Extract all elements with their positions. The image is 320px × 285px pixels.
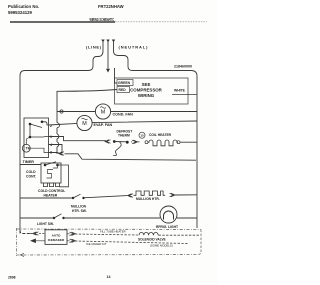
connector arrow into icemaker top bbox=[30, 232, 39, 235]
timer contact dot B bbox=[41, 121, 44, 124]
timer blade bbox=[30, 124, 42, 128]
icemaker row B out connector bbox=[67, 232, 76, 235]
svg-text:RED: RED bbox=[119, 88, 127, 92]
label MULLION HTR. SW. bbox=[71, 205, 87, 214]
dashes into box top bbox=[39, 233, 45, 235]
svg-text:COLD CONTROL: COLD CONTROL bbox=[38, 189, 65, 193]
defrost thermostat pigtail bbox=[113, 142, 121, 156]
label COLD CONT. bbox=[26, 170, 37, 179]
svg-text:5995324129: 5995324129 bbox=[8, 10, 33, 15]
wire WHITE to right bus bbox=[172, 94, 197, 96]
svg-text:GREEN: GREEN bbox=[118, 81, 131, 85]
solenoid valve coil bbox=[139, 232, 158, 235]
svg-text:HTR. SW.: HTR. SW. bbox=[72, 209, 87, 213]
timer box bbox=[24, 118, 49, 158]
wire defrost therm segment bbox=[114, 141, 127, 143]
label DEFROST THERM bbox=[117, 129, 133, 137]
wire to mullion heater bbox=[84, 196, 128, 198]
connector >> mullion bbox=[170, 193, 176, 197]
wire dot A down to node C bbox=[29, 124, 31, 137]
svg-text:COND. FAN: COND. FAN bbox=[113, 112, 134, 116]
connector << on bottom dash bbox=[21, 253, 25, 256]
svg-text:TIMER: TIMER bbox=[23, 160, 35, 164]
svg-text:COIL HEATER: COIL HEATER bbox=[149, 133, 172, 137]
svg-text:COLD: COLD bbox=[26, 170, 36, 174]
connector << on pin3 line bbox=[59, 152, 65, 156]
wire TM to node C bbox=[25, 139, 27, 144]
svg-text:SOLENOID VALVE: SOLENOID VALVE bbox=[138, 238, 166, 242]
header: publication number bbox=[8, 4, 39, 15]
light switch dot left bbox=[53, 217, 55, 219]
wire TM to pin 3 bbox=[30, 148, 48, 152]
wire: NEUTRAL prong jog to right bus bbox=[114, 42, 198, 228]
svg-text:2: 2 bbox=[50, 124, 52, 128]
svg-text:EVAP. FAN: EVAP. FAN bbox=[94, 123, 113, 127]
svg-text:SEE: SEE bbox=[142, 82, 151, 87]
header rule bbox=[10, 21, 115, 23]
svg-text:(SOME MODELS): (SOME MODELS) bbox=[150, 244, 173, 248]
ground arrow down bbox=[106, 69, 110, 73]
svg-text:218460000: 218460000 bbox=[174, 65, 192, 69]
wire pin3 long line to right bus bbox=[49, 153, 197, 161]
icemaker boundary dash-dot top bbox=[17, 228, 202, 231]
timer node C dot bbox=[29, 136, 32, 139]
svg-text:WIRING SCHEMATIC: WIRING SCHEMATIC bbox=[90, 17, 115, 22]
auto icemaker box bbox=[45, 230, 67, 245]
refrigerator light bulb bbox=[160, 206, 177, 223]
svg-text:MULLION: MULLION bbox=[71, 205, 87, 209]
svg-text:14: 14 bbox=[107, 275, 111, 279]
svg-text:COMPRESSOR: COMPRESSOR bbox=[130, 88, 163, 93]
wire condenser fan row bbox=[57, 111, 197, 113]
svg-text:ICE MAKER KIT: ICE MAKER KIT bbox=[86, 242, 107, 246]
connector on defrost line bbox=[105, 140, 111, 144]
dashed wire solenoid to right bbox=[159, 234, 200, 236]
svg-text:ICEMAKER: ICEMAKER bbox=[48, 238, 65, 242]
plug prong NEUTRAL arrow head bbox=[112, 40, 115, 43]
wire dot B to pin 2 bbox=[42, 122, 49, 125]
wire light switch row bbox=[20, 217, 54, 219]
mullion switch dot right bbox=[82, 197, 84, 199]
svg-text:M: M bbox=[101, 110, 106, 116]
mullion switch blade bbox=[73, 194, 81, 198]
svg-text:RFRIG. LIGHT: RFRIG. LIGHT bbox=[156, 225, 178, 229]
cold control contact dots bbox=[44, 164, 47, 167]
wire node C to pin 1 bbox=[30, 136, 49, 139]
svg-text:WIRING: WIRING bbox=[138, 93, 155, 98]
terminal box RED bbox=[117, 87, 130, 93]
circled connector 15 bbox=[139, 132, 145, 138]
wire coil heater to right bus bbox=[180, 141, 197, 143]
svg-text:TM: TM bbox=[26, 147, 31, 151]
cold control heater bumps bbox=[44, 183, 60, 187]
wire cold control right loop to heater bbox=[58, 165, 69, 187]
motor: condenser fan bbox=[95, 104, 110, 119]
timer contact dot A bbox=[29, 123, 32, 126]
wire mullion heater row bbox=[20, 197, 73, 199]
svg-text:WHITE: WHITE bbox=[174, 89, 186, 93]
dashed wire row C bbox=[75, 241, 188, 244]
wire: LINE prong down-jog to left bus bbox=[20, 42, 103, 234]
svg-text:CONT.: CONT. bbox=[26, 175, 37, 179]
text SEE COMPRESSOR WIRING bbox=[130, 82, 163, 98]
mullion switch dot left bbox=[72, 197, 74, 199]
icemaker boundary dashed bottom bbox=[17, 254, 199, 257]
svg-text:M: M bbox=[82, 121, 87, 127]
icemaker boundary dash-dot vertical left bbox=[16, 228, 18, 256]
svg-text:FRT22NHAW: FRT22NHAW bbox=[98, 4, 124, 9]
wire evaporator fan row bbox=[49, 121, 198, 125]
defrost line dot right bbox=[126, 141, 129, 144]
wire RED to timer bus bbox=[57, 90, 117, 155]
wire mullion to right bus bbox=[175, 194, 197, 196]
wire left bus corner into icemaker row bbox=[20, 230, 30, 234]
wire to refrigerator light bbox=[64, 217, 161, 219]
timer motor TM bbox=[22, 144, 30, 152]
motor: evaporator fan bbox=[77, 115, 92, 130]
cold control box bbox=[41, 163, 61, 183]
svg-text:LIGHT SW.: LIGHT SW. bbox=[37, 222, 54, 226]
coil heater terminal right bbox=[177, 141, 180, 144]
svg-text:AUTO: AUTO bbox=[52, 233, 61, 237]
light switch blade bbox=[54, 214, 62, 218]
mullion heater element square bumps bbox=[134, 191, 166, 195]
cold control bellows element bbox=[47, 165, 58, 178]
label COLD CONTROL HEATER bbox=[38, 189, 65, 198]
plug prong GROUND arrow head bbox=[106, 40, 109, 43]
compressor box bbox=[115, 78, 189, 104]
dashed wire row B to solenoid bbox=[75, 234, 138, 235]
wire left bus to cold control bbox=[20, 164, 41, 166]
coil heater element bbox=[148, 140, 178, 146]
wire pin1 defrost feed bbox=[49, 137, 107, 154]
hop bump over pin4 row bbox=[57, 142, 59, 147]
connector >> on defrost line bbox=[131, 140, 140, 144]
cold control blade bbox=[45, 162, 56, 165]
light switch dot right bbox=[62, 217, 64, 219]
wire light to right bus bbox=[177, 217, 197, 219]
svg-text:(LINE): (LINE) bbox=[86, 45, 102, 50]
wire: ground prong bbox=[107, 42, 109, 69]
plug prong LINE arrow bbox=[101, 40, 104, 43]
icemaker lower-left arrow connector bbox=[31, 239, 45, 243]
hop bump over pin1 row bbox=[57, 134, 59, 139]
label AUTO ICEMAKER bbox=[48, 233, 65, 241]
hop bump over evap row bbox=[57, 123, 60, 128]
coil heater terminal left bbox=[145, 141, 148, 144]
connector circle on cond wire bbox=[60, 110, 63, 113]
svg-text:2698: 2698 bbox=[8, 276, 16, 280]
icemaker row C out connector bbox=[67, 239, 76, 242]
svg-text:THERM: THERM bbox=[118, 134, 130, 138]
svg-text:(NEUTRAL): (NEUTRAL) bbox=[119, 45, 149, 50]
svg-text:FILL TUBE HEATER: FILL TUBE HEATER bbox=[100, 229, 126, 233]
connector << mullion bbox=[128, 194, 134, 198]
green wire stub into box bbox=[115, 68, 118, 83]
icemaker boundary dashed right bbox=[198, 230, 201, 255]
terminal box GREEN bbox=[117, 80, 133, 86]
svg-text:MULLION HTR.: MULLION HTR. bbox=[136, 197, 160, 201]
svg-text:HEATER: HEATER bbox=[44, 193, 58, 197]
defrost line dot left bbox=[113, 140, 116, 143]
svg-text:Publication No.: Publication No. bbox=[8, 4, 39, 9]
svg-text:15: 15 bbox=[140, 134, 144, 138]
